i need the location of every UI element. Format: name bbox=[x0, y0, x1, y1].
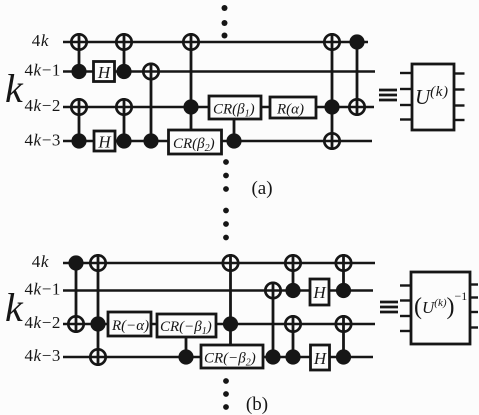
svg-text:R(−α): R(−α) bbox=[111, 318, 149, 334]
U(k) block stubs left bbox=[400, 73, 412, 120]
CNOT b8: control 4k-1, target 4k bbox=[336, 254, 351, 298]
CNOT a2: control 4k-3, target 4k-2 bbox=[71, 98, 86, 149]
wire 4k (a) bbox=[63, 41, 368, 43]
U(k) block box bbox=[412, 64, 454, 130]
CNOT a9: control 4k, target 4k-2 bbox=[349, 34, 364, 116]
CNOT b1: control 4k, target 4k-2 bbox=[68, 255, 83, 333]
svg-text:H: H bbox=[97, 63, 112, 82]
wire 4k-1 (a) bbox=[63, 70, 375, 72]
gate CR(-beta1) on 4k-2 bbox=[157, 314, 216, 337]
CNOT b5: control 4k-3, target 4k-1 bbox=[265, 282, 280, 365]
wire 4k-3 (a) bbox=[63, 140, 372, 142]
svg-text:4k: 4k bbox=[32, 252, 49, 271]
control b3: on 4k-3 for CR(-beta1) bbox=[178, 337, 193, 365]
dotted ellipsis above (a) bbox=[222, 5, 228, 39]
svg-text:k: k bbox=[5, 285, 24, 330]
svg-text:H: H bbox=[97, 133, 112, 152]
svg-text:H: H bbox=[312, 283, 327, 302]
svg-text:4k−3: 4k−3 bbox=[24, 131, 61, 150]
CNOT a1: control 4k-1, target 4k bbox=[71, 33, 86, 79]
gate CR(beta1) on 4k-2 bbox=[209, 96, 261, 120]
svg-text:4k: 4k bbox=[32, 31, 49, 50]
CNOT a4: control 4k-3, target 4k-2 bbox=[116, 98, 131, 149]
inverse U(k) block stubs left bbox=[400, 286, 411, 332]
gate CR(-beta2) on 4k-3 bbox=[201, 345, 263, 369]
U(k) block stubs right bbox=[454, 74, 465, 121]
CNOT b6: control 4k-1, target 4k bbox=[285, 254, 300, 298]
inverse U(k) block box bbox=[411, 272, 470, 344]
wire 4k-3 (b) bbox=[63, 356, 373, 358]
gate CR(beta2) on 4k-3 bbox=[169, 130, 222, 154]
inverse U(k) block stubs right bbox=[470, 285, 478, 328]
dotted ellipsis below (b) bbox=[223, 378, 229, 410]
compound b4: target 4k, control 4k-2, line into CR(-beta2) bbox=[223, 254, 238, 345]
control a7: on 4k-3 for CR(beta1) bbox=[226, 119, 241, 149]
svg-text:4k−3: 4k−3 bbox=[24, 346, 61, 365]
equivalence sign (b) bbox=[380, 302, 398, 312]
dotted ellipsis below (a) bbox=[223, 159, 229, 240]
svg-text:4k−1: 4k−1 bbox=[24, 61, 61, 80]
wire 4k-1 (b) bbox=[63, 289, 373, 291]
Hadamard H (a, wire 4k-1) bbox=[94, 62, 115, 83]
gate R(-alpha) on 4k-2 bbox=[108, 312, 151, 336]
svg-text:H: H bbox=[313, 349, 328, 368]
CNOT a5: control 4k-3, target 4k-1 bbox=[143, 63, 158, 149]
CNOT b7: control 4k-3, target 4k-2 bbox=[285, 315, 300, 365]
CNOT b9: control 4k-3, target 4k-2 bbox=[336, 315, 351, 365]
wire 4k-2 (a) bbox=[63, 106, 374, 108]
svg-text:4k−1: 4k−1 bbox=[24, 280, 61, 299]
Hadamard H (b, wire 4k-3) bbox=[311, 345, 330, 370]
gate R(alpha) on 4k-2 bbox=[270, 97, 316, 118]
Hadamard H (b, wire 4k-1) bbox=[310, 279, 329, 305]
svg-text:(b): (b) bbox=[246, 394, 268, 415]
CNOT a3: control 4k-1, target 4k bbox=[116, 33, 131, 79]
svg-text:R(α): R(α) bbox=[276, 102, 304, 118]
compound b2: targets 4k and 4k-3, control 4k-2 bbox=[90, 254, 105, 366]
wire 4k (b) bbox=[63, 262, 375, 264]
equivalence sign (a) bbox=[379, 90, 397, 100]
svg-text:(a): (a) bbox=[251, 178, 272, 199]
svg-text:k: k bbox=[5, 66, 24, 111]
svg-text:4k−2: 4k−2 bbox=[24, 96, 61, 115]
svg-text:4k−2: 4k−2 bbox=[24, 313, 61, 332]
Hadamard H (a, wire 4k-3) bbox=[94, 131, 115, 152]
compound a8: targets 4k and 4k-3, control 4k-2 bbox=[324, 33, 339, 150]
compound a6: target 4k, control 4k-2, line into CR(b2) bbox=[183, 33, 198, 130]
wire 4k-2 (b) bbox=[63, 323, 375, 325]
